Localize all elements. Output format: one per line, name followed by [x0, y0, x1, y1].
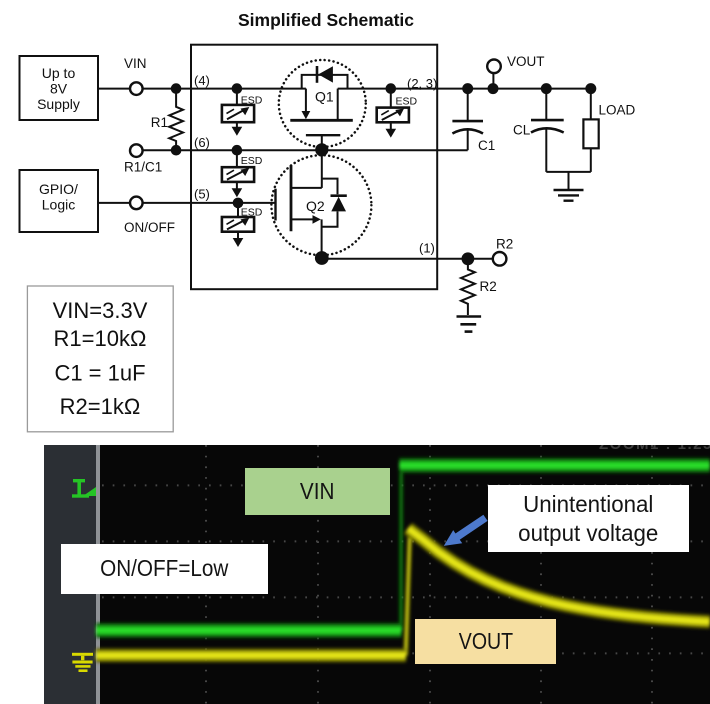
VOUT terminal circle	[487, 60, 501, 84]
R1/C1 terminal circle	[130, 144, 143, 157]
svg-text:CL: CL	[513, 123, 531, 138]
svg-text:Supply: Supply	[37, 96, 80, 112]
label R1	[151, 115, 168, 130]
pin label (6)	[194, 135, 210, 150]
VIN trace (green)	[96, 465, 710, 630]
label ESD 3	[241, 207, 263, 219]
svg-text:Logic: Logic	[42, 197, 75, 213]
ESD cell 4 on pin 2,3	[377, 93, 409, 138]
supply source block: Up to 8V Supply	[20, 56, 99, 120]
ESD cell 2 on pin 6	[222, 154, 254, 197]
node Q2 source junction	[315, 251, 329, 265]
VIN terminal circle	[130, 82, 143, 95]
wire pin 5 net to Q2 gate	[143, 202, 275, 204]
pin label (4)	[194, 73, 210, 88]
wire supply to VIN terminal	[98, 88, 129, 90]
svg-text:ESD: ESD	[241, 155, 263, 167]
label R1/C1	[124, 160, 162, 175]
label R2 terminal	[496, 237, 513, 252]
ESD cell 1 on pin 4	[222, 93, 254, 136]
label Q1	[315, 89, 334, 105]
node C1 junction	[462, 83, 473, 94]
svg-text:ON/OFF: ON/OFF	[124, 220, 175, 235]
ground CL/LOAD	[554, 172, 584, 201]
svg-text:Simplified Schematic: Simplified Schematic	[238, 10, 414, 30]
Unintentional output voltage annotation box	[488, 485, 689, 552]
svg-text:VOUT: VOUT	[507, 54, 545, 69]
svg-text:VIN=3.3V: VIN=3.3V	[53, 298, 148, 323]
label ESD 4	[396, 96, 418, 108]
label VOUT	[507, 54, 545, 69]
wire GPIO to ON/OFF terminal	[98, 202, 129, 204]
svg-text:(4): (4)	[194, 73, 210, 88]
ground R2	[457, 317, 482, 332]
node R2 junction	[462, 252, 475, 265]
wire CL/LOAD bottom	[546, 171, 591, 173]
VOUT annotation box	[415, 619, 556, 664]
resistor R1	[169, 93, 183, 151]
ground reference marker	[72, 652, 93, 671]
zoom readout text (clipped)	[599, 436, 710, 453]
svg-text:C1: C1	[478, 138, 495, 153]
svg-text:Up to: Up to	[42, 65, 76, 81]
graticule dotted grid	[102, 445, 710, 704]
transistor Q1	[290, 66, 353, 150]
label R2	[480, 279, 497, 294]
logic source block: GPIO/Logic	[20, 170, 99, 232]
node R1 bottom junction	[171, 145, 182, 156]
wire VIN line (pin 4 net)	[143, 88, 306, 90]
IC boundary box	[191, 45, 437, 290]
label VIN	[124, 56, 147, 71]
svg-text:(1): (1)	[419, 241, 435, 256]
label C1	[478, 138, 495, 153]
svg-text:(6): (6)	[194, 135, 210, 150]
node pin6 junction dot	[232, 145, 243, 156]
svg-text:R1=10kΩ: R1=10kΩ	[54, 326, 147, 351]
node LOAD junction	[585, 83, 596, 94]
pin label (1)	[419, 241, 435, 256]
transistor Q1 dotted envelope	[279, 60, 366, 147]
label ESD 2	[241, 155, 263, 167]
wire pin 6 net (R1/C1 to C1 across IC)	[143, 149, 468, 151]
label ESD 1	[241, 95, 263, 107]
values note box	[27, 286, 173, 432]
trigger level marker	[72, 479, 96, 498]
ON/OFF=Low annotation box	[61, 544, 268, 594]
node pin4 junction dot	[232, 83, 243, 94]
resistor R2	[461, 264, 475, 315]
svg-text:R1/C1: R1/C1	[124, 160, 162, 175]
node R1 top junction	[171, 83, 182, 94]
label CL	[513, 123, 531, 138]
ON/OFF terminal circle	[130, 197, 143, 210]
ESD cell 3 on pin 5	[222, 207, 254, 247]
node CL junction	[541, 83, 552, 94]
svg-text:R2=1kΩ: R2=1kΩ	[60, 394, 141, 419]
VIN annotation box	[245, 468, 391, 515]
wire pin 2,3 output net	[338, 88, 591, 90]
svg-text:R1: R1	[151, 115, 168, 130]
label LOAD	[599, 103, 636, 118]
capacitor CL	[531, 89, 564, 172]
svg-text:LOAD: LOAD	[599, 103, 636, 118]
node VOUT junction	[488, 83, 499, 94]
svg-text:ESD: ESD	[241, 207, 263, 219]
title: Simplified Schematic	[238, 10, 414, 30]
svg-text:Q2: Q2	[306, 198, 325, 214]
node ESD4 junction	[386, 83, 397, 94]
label ON/OFF	[124, 220, 175, 235]
svg-text:VIN: VIN	[124, 56, 147, 71]
pin label (2, 3)	[407, 76, 437, 91]
svg-text:ESD: ESD	[241, 95, 263, 107]
node pin5 junction dot	[233, 198, 244, 209]
svg-text:GPIO/: GPIO/	[39, 181, 78, 197]
R2 terminal circle	[493, 252, 507, 266]
svg-text:(5): (5)	[194, 187, 210, 202]
scope sidebar	[44, 445, 100, 704]
pin label (5)	[194, 187, 210, 202]
svg-text:Q1: Q1	[315, 89, 334, 105]
node Q1 gate junction	[315, 143, 328, 156]
label Q2	[306, 198, 325, 214]
svg-text:R2: R2	[480, 279, 497, 294]
transistor Q2	[276, 150, 347, 259]
svg-text:8V: 8V	[50, 81, 68, 97]
capacitor C1	[452, 89, 483, 151]
oscilloscope screenshot	[44, 445, 710, 704]
transistor Q2 dotted envelope	[271, 155, 371, 255]
svg-text:ESD: ESD	[396, 96, 418, 108]
annotation arrow (blue)	[44, 445, 710, 704]
load resistor	[583, 89, 598, 172]
svg-text:C1 = 1uF: C1 = 1uF	[54, 361, 145, 386]
VOUT trace (yellow)	[96, 528, 710, 655]
wire pin 1 net to R2	[322, 258, 493, 260]
svg-text:R2: R2	[496, 237, 513, 252]
